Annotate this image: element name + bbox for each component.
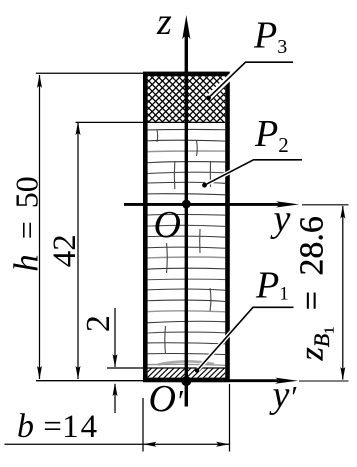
boundary line under P3 block with extension to 42-dim — [76, 121, 226, 123]
strip top line with extension to 2-dim — [107, 367, 225, 369]
svg-text:z: z — [156, 1, 172, 43]
extension lines for z_B1 — [302, 204, 349, 206]
extension lines for b — [142, 398, 144, 452]
leader line to P1 — [197, 307, 294, 370]
cross-hatched top plate P3 — [28, 74, 325, 134]
svg-text:O′: O′ — [149, 378, 184, 420]
cross-section rectangle outline — [145, 74, 227, 380]
svg-text:h = 50: h = 50 — [6, 176, 45, 272]
dimension line 2 (small strip) — [114, 308, 116, 367]
leader line to P2 — [205, 160, 303, 185]
svg-text:2: 2 — [80, 315, 117, 332]
dimension line 42 — [77, 122, 79, 379]
y axis — [124, 203, 279, 206]
svg-text:b = 14: b = 14 — [17, 408, 97, 445]
hatched bottom strip P1 — [128, 365, 262, 381]
extension line top (h) — [36, 72, 143, 74]
node O (centroid origin) — [182, 200, 191, 209]
dimension line h=50 — [39, 75, 41, 379]
dimension line z_B1 — [342, 206, 344, 380]
svg-text:O: O — [154, 204, 181, 246]
grain shadow arc above strip — [158, 361, 214, 364]
dimension line b=14 — [5, 443, 230, 445]
wood-grain vertical ticks — [156, 130, 159, 142]
svg-text:y′: y′ — [269, 374, 298, 416]
leader line to P3 — [209, 62, 294, 98]
y-prime axis — [36, 380, 145, 382]
node O-prime — [181, 376, 191, 386]
z axis — [185, 36, 188, 407]
svg-text:42: 42 — [47, 234, 83, 267]
wood-grain hatching of middle part P2 — [146, 129, 228, 365]
svg-text:y: y — [270, 198, 291, 240]
